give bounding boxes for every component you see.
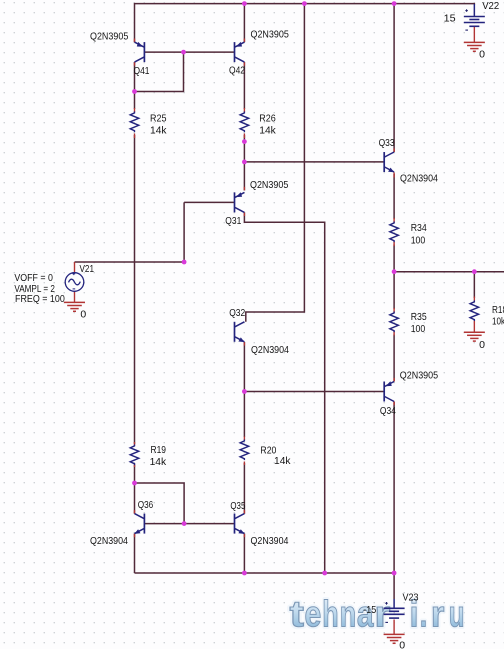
svg-text:FREQ = 100: FREQ = 100 [15,293,65,305]
svg-text:Q33: Q33 [379,137,395,149]
svg-text:Q2N3904: Q2N3904 [90,535,128,547]
svg-text:100: 100 [411,234,426,246]
svg-text:Q2N3905: Q2N3905 [90,31,128,43]
svg-text:0: 0 [399,640,405,649]
svg-text:14k: 14k [150,456,167,468]
svg-text:14k: 14k [150,125,167,137]
svg-text:Q31: Q31 [225,215,241,227]
svg-text:V21: V21 [80,263,95,275]
svg-text:Q2N3905: Q2N3905 [400,369,438,381]
svg-text:Q2N3905: Q2N3905 [250,179,288,191]
svg-text:R19: R19 [151,444,167,456]
svg-text:V22: V22 [482,0,499,12]
svg-text:15: 15 [444,12,456,24]
svg-text:0: 0 [479,339,485,351]
svg-text:Q2N3904: Q2N3904 [400,173,438,185]
svg-text:Q32: Q32 [229,307,245,319]
svg-text:R35: R35 [411,311,427,323]
svg-text:.: . [420,593,428,635]
svg-text:Q36: Q36 [138,499,154,511]
svg-text:Q35: Q35 [230,500,245,512]
svg-text:r: r [431,593,445,635]
svg-text:100: 100 [411,323,426,335]
svg-text:t: t [290,593,305,635]
svg-text:14k: 14k [259,125,276,137]
svg-text:Q2N3904: Q2N3904 [251,535,289,547]
svg-text:R18: R18 [492,304,504,316]
svg-text:14k: 14k [274,455,291,467]
svg-text:V23: V23 [403,592,419,604]
svg-text:10k: 10k [492,315,504,327]
svg-text:0: 0 [479,49,485,61]
svg-text:Q42: Q42 [229,65,245,77]
svg-text:h: h [322,593,338,635]
svg-text:n: n [340,593,356,635]
svg-text:0: 0 [80,309,86,321]
svg-text:-15: -15 [363,604,376,616]
svg-text:R34: R34 [411,222,427,234]
svg-text:Q2N3905: Q2N3905 [251,29,289,41]
svg-text:R26: R26 [259,113,276,125]
svg-text:Q34: Q34 [380,405,396,417]
svg-text:e: e [305,593,322,635]
svg-text:R25: R25 [150,113,167,125]
svg-text:Q41: Q41 [134,65,150,77]
svg-text:u: u [449,593,465,635]
svg-text:Q2N3904: Q2N3904 [251,344,289,356]
